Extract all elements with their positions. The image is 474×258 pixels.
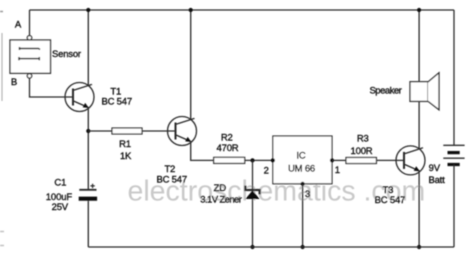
wire R1 to T2 base bbox=[142, 130, 176, 132]
wire IC pin1 to R3 bbox=[332, 159, 346, 161]
wire T1 emitter down bbox=[87, 107, 89, 189]
junction zener tap bbox=[250, 158, 254, 162]
speaker LS1 box bbox=[410, 82, 428, 102]
svg-text:IC: IC bbox=[296, 151, 305, 162]
svg-text:1K: 1K bbox=[120, 151, 132, 162]
svg-text:UM 66: UM 66 bbox=[288, 163, 315, 174]
svg-text:Sensor: Sensor bbox=[52, 49, 81, 60]
svg-text:25V: 25V bbox=[52, 202, 69, 213]
transistor T1 collector slant bbox=[74, 84, 93, 90]
svg-text:T2: T2 bbox=[164, 164, 175, 175]
svg-text:100R: 100R bbox=[351, 146, 373, 157]
svg-text:R3: R3 bbox=[357, 133, 369, 144]
node B terminal bbox=[27, 74, 31, 78]
transistor T1 emitter slant bbox=[74, 101, 89, 108]
resistor R1 body bbox=[112, 128, 142, 134]
wire T3 emitter to bottom rail bbox=[418, 171, 420, 247]
svg-text:R2: R2 bbox=[221, 132, 233, 143]
svg-text:3: 3 bbox=[305, 189, 310, 200]
svg-text:BC 547: BC 547 bbox=[375, 195, 406, 206]
junction T3 emitter on bottom rail bbox=[417, 245, 421, 249]
wire zener top bbox=[252, 160, 254, 189]
wire IC pin 3 to bottom rail bbox=[302, 184, 304, 247]
junction pin3 on bottom rail bbox=[301, 245, 305, 249]
svg-text:3.1V Zener: 3.1V Zener bbox=[200, 194, 241, 205]
transistor T3 circle bbox=[396, 146, 425, 175]
capacitor C1 polarity plus bbox=[90, 184, 94, 188]
wire battery bottom bbox=[453, 165, 455, 248]
transistor T2 emitter arrow bbox=[185, 137, 191, 142]
wire bottom rail bbox=[88, 246, 454, 248]
IC pin 2 junction bbox=[271, 158, 275, 162]
transistor T3 emitter slant bbox=[405, 164, 420, 171]
left edge artifact line bbox=[1, 33, 3, 101]
left edge artifact marks bottom bbox=[0, 232, 4, 246]
svg-text:BC 547: BC 547 bbox=[156, 175, 187, 186]
transistor T3 base bar bbox=[403, 152, 405, 169]
transistor T3 emitter arrow bbox=[414, 166, 420, 171]
junction speaker on top rail bbox=[417, 8, 421, 12]
resistor R2 body bbox=[214, 157, 245, 163]
transistor T1 base bar bbox=[72, 89, 74, 106]
wire T2 emitter to R2 bbox=[191, 141, 214, 160]
svg-text:1: 1 bbox=[335, 165, 340, 176]
wire T1 collector to top rail bbox=[87, 10, 89, 86]
wire junction to R1 bbox=[88, 130, 112, 132]
junction T1 collector on top rail bbox=[86, 8, 90, 12]
battery BT1 plate long 2 bbox=[443, 157, 464, 159]
svg-text:Batt: Batt bbox=[428, 175, 445, 186]
transistor T2 emitter slant bbox=[176, 135, 191, 142]
svg-text:2: 2 bbox=[264, 166, 269, 177]
capacitor C1 bottom plate bbox=[79, 197, 97, 201]
IC U1 UM66 box bbox=[273, 136, 332, 184]
svg-text:Speaker: Speaker bbox=[369, 86, 401, 97]
svg-text:ZD: ZD bbox=[214, 183, 227, 194]
svg-text:A: A bbox=[15, 20, 22, 31]
transistor T2 collector slant bbox=[176, 118, 195, 124]
wire node B to T1 base bbox=[30, 78, 74, 97]
wire zener to bottom rail bbox=[252, 199, 254, 247]
junction T1 emitter / R1 bbox=[86, 129, 90, 133]
capacitor C1 top plate bbox=[79, 189, 96, 191]
svg-text:R1: R1 bbox=[119, 139, 131, 150]
left edge artifact tick top bbox=[0, 11, 3, 13]
svg-text:9V: 9V bbox=[429, 163, 441, 174]
junction T2 collector on top rail bbox=[189, 8, 193, 12]
battery BT1 plate long 1 bbox=[443, 144, 464, 146]
transistor T3 collector slant bbox=[405, 148, 424, 154]
svg-text:C1: C1 bbox=[54, 178, 66, 189]
resistor R3 body bbox=[346, 158, 376, 164]
battery BT1 plate short 2 bbox=[448, 163, 460, 166]
wire R2 to IC pin2 bbox=[245, 159, 273, 161]
wire R3 to T3 base bbox=[376, 159, 404, 161]
zener ZD cathode bar bbox=[245, 186, 260, 195]
wire C1 to bottom rail bbox=[87, 201, 89, 247]
svg-text:B: B bbox=[11, 77, 17, 88]
junction zener on bottom rail bbox=[250, 245, 254, 249]
battery BT1 plate short 1 bbox=[448, 151, 460, 154]
svg-text:470R: 470R bbox=[217, 143, 239, 154]
zener ZD anode triangle bbox=[245, 191, 259, 200]
wire speaker column bbox=[418, 10, 420, 149]
wire top rail bbox=[30, 9, 455, 11]
transistor T1 emitter arrow bbox=[83, 103, 89, 108]
sensor SENSOR box bbox=[10, 40, 51, 73]
sensor plate bottom bbox=[19, 57, 39, 60]
IC pin 1 junction bbox=[330, 158, 334, 162]
node A terminal bbox=[27, 36, 31, 40]
transistor T2 circle bbox=[168, 117, 197, 146]
speaker LS1 cone bbox=[428, 73, 439, 110]
wire node A drop bbox=[29, 10, 31, 36]
sensor plate top bbox=[20, 47, 41, 50]
svg-text:BC 547: BC 547 bbox=[101, 97, 132, 108]
IC pin 3 junction bbox=[301, 182, 305, 186]
wire battery top bbox=[453, 10, 455, 145]
transistor Q T1 circle bbox=[65, 83, 94, 112]
transistor T2 base bar bbox=[175, 123, 177, 140]
wire T2 collector to top rail bbox=[190, 10, 192, 120]
